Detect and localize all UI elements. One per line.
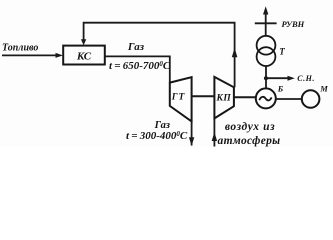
- wire generator to junction: [265, 78, 267, 88]
- wire: compressed air line from КП up and over to КС: [84, 23, 235, 88]
- svg-text:Б: Б: [277, 84, 284, 94]
- svg-text:Топливо: Топливо: [2, 43, 38, 54]
- svg-text:КС: КС: [76, 50, 92, 62]
- svg-text:М: М: [319, 83, 328, 93]
- generator Б: [256, 88, 276, 108]
- arrowhead down into КС: [81, 39, 86, 45]
- shaft ГТ to КП: [192, 95, 215, 97]
- svg-text:РУВН: РУВН: [282, 19, 305, 29]
- svg-text:воздух из: воздух из: [225, 121, 275, 133]
- compressor КП: [214, 77, 234, 119]
- svg-text:атмосферы: атмосферы: [218, 135, 281, 147]
- air intake line into КП: [212, 118, 217, 146]
- wire: hot gas line from КС to ГТ: [105, 56, 170, 82]
- svg-text:Т: Т: [279, 47, 285, 57]
- РУВН bus bar: [255, 22, 277, 24]
- exhaust gas line down from ГТ: [189, 121, 194, 146]
- svg-text:КП: КП: [215, 93, 231, 103]
- wire junction to transformer: [265, 66, 267, 78]
- gas turbine ГТ: [170, 77, 192, 121]
- motor М: [302, 90, 320, 108]
- svg-text:Газ: Газ: [127, 41, 145, 53]
- fuel supply line into КС: [2, 53, 63, 58]
- combustion chamber КС: [63, 46, 105, 65]
- arrowhead up on compressed air riser: [232, 48, 238, 57]
- transformer Т: [257, 36, 276, 66]
- svg-text:С.Н.: С.Н.: [297, 74, 315, 83]
- wire generator to motor: [276, 98, 302, 100]
- svg-text:ГТ: ГТ: [171, 93, 186, 103]
- junction node dot: [264, 76, 268, 80]
- С.Н. auxiliary supply arrow: [266, 76, 295, 81]
- wire transformer to РУВН with up arrow: [263, 6, 268, 36]
- shaft КП to generator: [234, 96, 256, 98]
